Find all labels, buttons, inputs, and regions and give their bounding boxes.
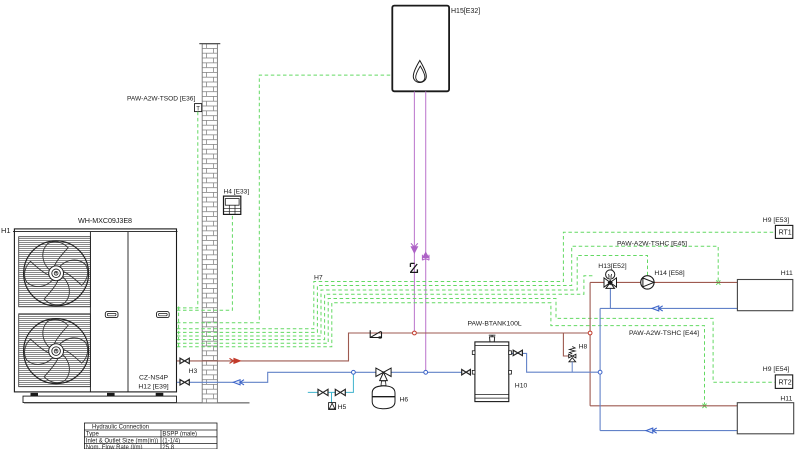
- cable trunk line 5 (to RT2 H9 E54): [177, 299, 775, 383]
- remote controller H4 [E33]: [224, 189, 250, 215]
- svg-text:PAW-A2W-TSHC [E45]: PAW-A2W-TSHC [E45]: [617, 240, 687, 247]
- cabinet body: [14, 229, 176, 392]
- foot 3: [156, 393, 164, 396]
- svg-text:PAW-A2W-TSOD [E36]: PAW-A2W-TSOD [E36]: [127, 96, 195, 103]
- svg-text:H9 [E54]: H9 [E54]: [763, 366, 790, 373]
- shut-off valve H3 on flow: [180, 358, 189, 363]
- blue outlet stem: [571, 362, 573, 372]
- wire blue drop from mixing valve: [609, 287, 611, 308]
- radiator H11 (bottom circuit): [737, 395, 793, 434]
- tank port lower-right: [509, 370, 512, 374]
- wire red riser to top circuit / drop to bottom circuit: [589, 282, 591, 405]
- drain funnel symbol: [329, 403, 336, 410]
- strainer/filter on red line: [370, 330, 381, 337]
- cable TSOD sensor: [177, 112, 198, 308]
- buffer tank PAW-BTANK100L (H10): [462, 320, 528, 401]
- flow arrow up: [422, 252, 429, 258]
- connector: [381, 381, 386, 386]
- boiler flow pipe (purple, down to red junction): [410, 92, 418, 334]
- flow arrow down: [411, 243, 418, 247]
- svg-text:Inlet & Outlet Size (mm(in)): Inlet & Outlet Size (mm(in)): [86, 438, 158, 444]
- sensor tap E44 on flow pipe: [702, 404, 706, 408]
- junction node red at riser: [588, 331, 592, 335]
- cyan drain branch piping: [308, 372, 354, 402]
- svg-text:T: T: [196, 106, 200, 112]
- junction node red at purple tie-in: [413, 331, 417, 335]
- panel divider 1: [89, 232, 91, 392]
- cable trunk line 2 (to TSHC E45 sensor): [177, 246, 718, 332]
- spring: [570, 347, 576, 355]
- radiator H11 (top circuit): [737, 270, 793, 311]
- wire blue tank outlet top-right to east run: [511, 353, 600, 372]
- tank port upper-right: [509, 351, 512, 355]
- cable H4 controller: [177, 215, 233, 311]
- valve body: [569, 354, 576, 358]
- boiler return pipe (purple, down to blue line): [422, 92, 429, 373]
- svg-text:RT1: RT1: [779, 230, 792, 237]
- boiler H15 [E32]: [392, 6, 480, 92]
- svg-text:BSPP (male): BSPP (male): [162, 432, 197, 438]
- junction node blue at riser: [598, 370, 602, 374]
- cable riser at unit edge: [178, 307, 180, 347]
- wire blue return riser (both circuits): [599, 308, 601, 430]
- shut-off valve H3 on return: [180, 380, 189, 385]
- cable trunk line 6 (to TSHC E44 sensor): [177, 303, 705, 405]
- valve right: [335, 389, 345, 395]
- circulation pump H14 [E58]: [641, 270, 685, 289]
- fan grille panel upper: [19, 237, 91, 307]
- wire purple return: [425, 92, 427, 373]
- sensor tap E45 on flow pipe: [716, 280, 720, 284]
- svg-text:H4 [E33]: H4 [E33]: [224, 189, 250, 196]
- fan 1: [24, 241, 89, 306]
- wire purple supply: [413, 92, 415, 334]
- wire blue bottom circuit return: [600, 430, 737, 432]
- return direction arrow blue (top circuit): [652, 306, 663, 311]
- red flow piping: [177, 282, 738, 405]
- 3-way valve: [376, 368, 391, 381]
- svg-text:H9 [E53]: H9 [E53]: [763, 217, 790, 224]
- wire red stub to relief valve H8: [563, 333, 568, 356]
- cable trunk line 3 (to pump H14 E58): [177, 256, 648, 337]
- motorised mixing valve H13 [E52]: [598, 263, 626, 289]
- wire blue from unit, step up, to tank valve: [177, 372, 462, 382]
- svg-text:M: M: [608, 274, 613, 280]
- return direction arrow blue (bottom circuit): [646, 428, 657, 433]
- heat pump H1 (WH-MXC09J3E8 outdoor unit): [1, 216, 250, 403]
- svg-text:H7: H7: [314, 275, 323, 282]
- drain valves H5: [318, 389, 347, 411]
- valve at tank outlet (top right): [513, 350, 522, 355]
- check valve: [410, 263, 417, 272]
- wire red from unit to step: [177, 333, 590, 361]
- handle vent left: [105, 312, 118, 318]
- wire red bottom circuit to radiator: [590, 405, 737, 407]
- wire cyan stub to drain H5: [331, 392, 333, 402]
- svg-text:H5: H5: [338, 404, 347, 411]
- vessel body: [372, 386, 395, 409]
- svg-text:H8: H8: [579, 343, 588, 350]
- cable boiler E32: [177, 75, 392, 323]
- flame symbol: [413, 61, 426, 83]
- svg-text:Nom. Flow Rate (l/m): Nom. Flow Rate (l/m): [86, 445, 143, 449]
- fan 2: [24, 319, 89, 384]
- cabinet top cap line: [13, 231, 178, 233]
- svg-text:H1: H1: [1, 226, 11, 235]
- valve left: [318, 389, 328, 395]
- svg-text:H11: H11: [781, 270, 793, 277]
- svg-text:Type: Type: [86, 432, 100, 438]
- svg-text:H14 [E58]: H14 [E58]: [654, 270, 684, 277]
- tank port lower-left: [472, 370, 475, 374]
- room thermostat RT1 (H9 [E53]): [763, 217, 793, 239]
- flow direction arrow red: [230, 358, 241, 363]
- handle vent right: [157, 312, 170, 318]
- svg-text:H3: H3: [189, 368, 198, 375]
- blue return piping: [177, 287, 738, 431]
- hydraulic connection table: [84, 423, 217, 449]
- svg-text:H12 [E39]: H12 [E39]: [138, 383, 168, 390]
- tank body: [475, 342, 509, 402]
- svg-text:H13[E52]: H13[E52]: [598, 263, 626, 270]
- foot 1: [31, 393, 39, 396]
- junction node blue at drain branch: [352, 370, 356, 374]
- pressure relief valve H8: [569, 343, 588, 372]
- junction node blue at purple tie-in: [424, 370, 428, 374]
- ground line: [24, 402, 250, 404]
- svg-text:H11: H11: [780, 395, 792, 402]
- svg-text:CZ-NS4P: CZ-NS4P: [139, 375, 169, 382]
- tank port upper-left: [472, 351, 475, 355]
- valve body 3-way: [604, 278, 617, 289]
- green control cables: [177, 75, 775, 404]
- return direction arrow blue (near unit): [233, 380, 244, 385]
- cable trunk line 4 (to mixing valve H13 E52): [177, 276, 595, 340]
- svg-text:H15[E32]: H15[E32]: [451, 8, 480, 15]
- svg-text:H10: H10: [515, 383, 528, 390]
- panel divider 2: [127, 232, 129, 392]
- mounting base: [23, 396, 177, 402]
- svg-text:PAW-BTANK100L: PAW-BTANK100L: [468, 320, 522, 327]
- svg-text:RT2: RT2: [779, 380, 792, 387]
- controller box: [224, 196, 241, 214]
- svg-text:H6: H6: [400, 396, 409, 403]
- wire cyan drop from junction: [308, 372, 354, 392]
- sensor T box: [195, 104, 202, 112]
- svg-text:Hydraulic Connection: Hydraulic Connection: [92, 425, 149, 431]
- foot 2: [107, 393, 115, 396]
- valve at tank inlet (left): [462, 370, 471, 375]
- svg-text:(1-1/4): (1-1/4): [162, 438, 180, 444]
- motor M: [606, 270, 615, 279]
- fan grille panel lower: [19, 314, 91, 387]
- wall top cap: [199, 43, 220, 45]
- svg-text:WH-MXC09J3E8: WH-MXC09J3E8: [78, 216, 132, 225]
- wire red top circuit to radiator: [590, 281, 737, 283]
- cable trunk line 1 (to RT1 H9 E53): [177, 232, 775, 328]
- expansion vessel H6 with isolating 3-way valve: [372, 368, 408, 409]
- svg-text:PAW-A2W-TSHC [E44]: PAW-A2W-TSHC [E44]: [629, 330, 699, 337]
- tank vent to red line: [489, 335, 496, 342]
- room thermostat RT2 (H9 [E54]): [763, 366, 793, 388]
- outdoor temp sensor PAW-A2W-TSOD [E36]: [127, 96, 202, 113]
- svg-text:25.8: 25.8: [162, 445, 174, 449]
- brick wall column: [199, 44, 220, 403]
- wire blue top circuit return: [600, 307, 737, 309]
